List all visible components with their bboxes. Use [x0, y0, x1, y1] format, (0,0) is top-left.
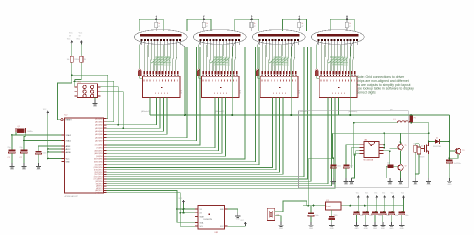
crystal Q2 box: [267, 208, 275, 220]
capacitor C21 decouple: [367, 206, 369, 212]
ground cap 3: [374, 222, 376, 226]
driver IC4 box: [319, 76, 357, 98]
svg-text:1k: 1k: [158, 23, 160, 25]
psu IC3 pins: [360, 144, 364, 146]
driver IC2 pin numbers bottom: [213, 92, 216, 94]
svg-text:GND: GND: [373, 228, 378, 230]
svg-text:U$1: U$1: [364, 140, 367, 142]
wire d5 r: [439, 141, 449, 143]
capacitor C23 decouple: [384, 206, 386, 212]
svg-text:In out: In out: [326, 205, 331, 208]
svg-text:16MHz: 16MHz: [27, 131, 33, 133]
ground lp2: [350, 178, 352, 182]
svg-text:GND: GND: [447, 184, 452, 186]
svg-text:2k2: 2k2: [387, 162, 390, 164]
node rail j3: [349, 205, 351, 207]
wire vcc avcc: [48, 148, 62, 150]
resistor R2 pullup: [80, 56, 83, 62]
svg-text:100n: 100n: [386, 215, 390, 217]
node filament junction 3: [251, 18, 253, 20]
svg-text:X2: X2: [200, 213, 202, 215]
node xtal2 j: [23, 140, 25, 142]
tube V2 segment bar: [199, 34, 241, 36]
connector SV1 pin stubs: [75, 86, 78, 88]
wire ic3 mid line: [333, 132, 429, 134]
capacitor C1: [9, 150, 16, 152]
tube V4 segment bar: [317, 34, 359, 36]
wire tube 2 anode to rail: [232, 41, 235, 47]
tube V3 pin wires: [259, 41, 261, 45]
rtc IC2 box: [198, 205, 225, 229]
svg-text:(MOSI)PB5: (MOSI)PB5: [94, 159, 103, 161]
svg-text:AGND: AGND: [66, 151, 72, 154]
node anode junction 3: [290, 114, 292, 116]
power VCC rtc pullups: [182, 200, 185, 202]
resistor array driver 2: [202, 71, 204, 75]
svg-text:(OC0)PB0: (OC0)PB0: [95, 145, 103, 147]
ground connector: [94, 98, 96, 102]
ground R12: [389, 178, 391, 182]
driver IC1 center mark: [161, 87, 162, 88]
resistor R11: [417, 147, 420, 154]
ground Q3: [428, 178, 430, 182]
driver IC3 center mark: [279, 87, 280, 88]
svg-text:1k: 1k: [206, 23, 208, 25]
svg-text:47: 47: [206, 26, 208, 28]
svg-text:GND: GND: [279, 228, 284, 230]
power VCC cap 2: [366, 195, 369, 197]
wire ic3 lp3: [354, 123, 360, 155]
power VCC mcu: [46, 111, 49, 113]
svg-text:100n: 100n: [315, 215, 319, 217]
wire c1 gnd: [11, 153, 13, 163]
wire xtal1: [24, 132, 61, 140]
driver IC2 center mark: [220, 87, 221, 88]
wire t3 down: [449, 154, 458, 158]
resistor filament R2: [202, 22, 205, 27]
node scl row2: [180, 212, 182, 214]
power VCC filament 5: [346, 16, 348, 20]
wire agnd: [48, 151, 62, 153]
svg-text:(AD1)PA1: (AD1)PA1: [95, 121, 103, 124]
driver IC4 pin numbers top: [320, 80, 323, 82]
wire t1 up: [400, 133, 402, 144]
wire ISP w3: [101, 87, 119, 125]
driver IC4 center mark: [338, 87, 339, 88]
wire q2 a: [275, 201, 307, 212]
svg-text:(AIN1)PB3: (AIN1)PB3: [95, 152, 103, 155]
capacitor C12: [343, 165, 349, 167]
rtc top right pin: [225, 208, 228, 210]
svg-text:47: 47: [349, 26, 351, 28]
resistor filament R5: [345, 22, 348, 27]
connector SV1 box: [77, 84, 97, 98]
svg-text:(AD3)PA3: (AD3)PA3: [95, 127, 103, 130]
svg-text:(SS)PB4: (SS)PB4: [96, 156, 103, 158]
wire crossover mesh tube 4: [328, 58, 336, 64]
svg-text:10k: 10k: [76, 59, 79, 61]
resistor array driver 3: [261, 71, 263, 75]
wire c11 left: [308, 157, 333, 159]
wire ic3 lp1: [346, 145, 360, 165]
svg-text:GND: GND: [330, 228, 335, 230]
wire driver1 anode feed: [149, 98, 151, 115]
wire mid line down: [332, 133, 335, 158]
wire ic3 lp4: [351, 154, 359, 178]
svg-text:T2: T2: [405, 166, 407, 168]
resistor R12: [388, 165, 394, 168]
power VCC filament 2: [203, 16, 205, 20]
svg-text:IC5: IC5: [326, 200, 329, 202]
svg-text:GND: GND: [22, 169, 27, 171]
svg-text:psu: psu: [390, 109, 393, 111]
capacitor C3 aref: [35, 151, 41, 152]
svg-text:GND: GND: [331, 184, 336, 186]
ground cap 6: [401, 222, 403, 226]
node filament junction 5: [346, 18, 348, 20]
power VCC cap 1: [357, 195, 360, 197]
svg-text:1k5: 1k5: [421, 146, 424, 148]
svg-text:(MISO)PB6: (MISO)PB6: [94, 162, 103, 164]
svg-text:GND: GND: [364, 228, 369, 230]
driver IC3 pin numbers top: [261, 80, 264, 82]
svg-text:47: 47: [302, 26, 304, 28]
svg-text:(AD0)PA0: (AD0)PA0: [95, 117, 103, 120]
svg-text:(A11)PC3: (A11)PC3: [95, 191, 102, 194]
wire crossover mesh tube 1: [151, 58, 159, 64]
wire c2 gnd: [23, 153, 25, 163]
capacitor C13 out: [446, 159, 453, 161]
node filament junction 4: [298, 18, 300, 20]
wire t1 t2: [400, 150, 402, 164]
driver IC2 box: [201, 76, 239, 98]
capacitor C10 elco: [310, 206, 312, 213]
ground cap 4: [382, 222, 384, 226]
power VCC R1: [70, 40, 73, 42]
svg-text:(T1)PB1: (T1)PB1: [96, 148, 102, 150]
driver IC3 pin numbers bottom: [272, 92, 275, 94]
wire ISP w2: [75, 81, 114, 122]
svg-text:1N4937/B6: 1N4937/B6: [433, 146, 441, 148]
wire R2 down: [75, 62, 82, 87]
wire q3 gnd: [428, 154, 430, 178]
wire rtc vcc gnd: [228, 209, 238, 213]
ground C3: [37, 163, 39, 167]
tube V1 segment bar: [140, 34, 182, 36]
power VCC rtc: [244, 222, 247, 224]
node mid line j: [428, 133, 430, 135]
wire rail right corner: [448, 115, 450, 159]
tube V3 pins: [259, 39, 261, 41]
node rail j4: [364, 205, 366, 207]
node xtal1 j: [11, 134, 13, 136]
psu IC3 box: [364, 142, 379, 158]
wire c1 up: [12, 134, 16, 136]
svg-text:47: 47: [158, 26, 160, 28]
svg-text:2u2/250v: 2u2/250v: [454, 163, 461, 165]
mosfet Q3: [428, 133, 430, 145]
wire filament link 1: [139, 19, 163, 31]
svg-text:XTAL1: XTAL1: [66, 139, 71, 142]
svg-text:AVCC: AVCC: [66, 148, 72, 151]
wire filament link 4: [282, 19, 306, 31]
svg-text:RESET: RESET: [66, 119, 73, 121]
svg-text:[ANode2]: [ANode2]: [216, 110, 225, 113]
wire ISP w4: [101, 92, 124, 129]
wire rtc vcc2: [228, 225, 246, 227]
svg-text:22p: 22p: [20, 147, 23, 149]
capacitor C24 decouple: [392, 206, 394, 212]
capacitor C20 decouple: [357, 206, 359, 212]
tube V2 pin wires: [200, 41, 202, 45]
svg-text:GND: GND: [400, 228, 405, 230]
capacitor C2: [21, 150, 28, 152]
ground C13: [448, 178, 450, 182]
wire crossover mesh tube 2: [210, 58, 218, 64]
wire ic3 riser: [383, 133, 385, 147]
driver IC2 pin numbers top: [202, 80, 205, 82]
svg-text:GND: GND: [66, 161, 71, 163]
tube V3 envelope: [252, 30, 305, 45]
node anode junction 1: [184, 114, 186, 116]
wire c13 gnd: [448, 163, 450, 178]
svg-text:1k: 1k: [254, 23, 256, 25]
ground R10: [414, 178, 416, 182]
svg-text:GND: GND: [427, 184, 432, 186]
node filament junction 1: [155, 18, 157, 20]
ground C10: [310, 222, 312, 226]
svg-text:(AIN0)PB2: (AIN0)PB2: [95, 149, 103, 152]
svg-text:R4: R4: [84, 59, 86, 61]
driver IC3 box: [260, 76, 298, 98]
svg-text:22p: 22p: [8, 147, 11, 149]
wire 7805 up: [307, 158, 309, 205]
power VCC filament 3: [251, 16, 253, 20]
wire cap 6 stub: [403, 199, 405, 205]
wire SCL: [104, 193, 199, 227]
svg-text:(AD5)PA5: (AD5)PA5: [95, 133, 103, 136]
ground cap 5: [390, 222, 392, 226]
svg-text:100n: 100n: [360, 215, 364, 217]
svg-text:GND: GND: [309, 228, 314, 230]
power VCC cap 3: [375, 195, 378, 197]
node filament junction 2: [203, 18, 205, 20]
rtc IC2 pins: [195, 208, 198, 210]
wire filament link 5: [330, 19, 354, 31]
wire L1 left: [354, 122, 398, 124]
wire bundle tube 4 to driver: [321, 45, 323, 71]
node scl pullup: [183, 212, 185, 214]
mcu right pins: [104, 118, 107, 120]
wire tube 4 anode to rail: [350, 41, 353, 47]
wire R1 to reset: [71, 62, 73, 83]
node rail j1: [307, 205, 309, 207]
power VCC R2: [80, 40, 83, 42]
svg-text:4u7: 4u7: [350, 166, 353, 168]
wire cap 4 stub: [384, 199, 386, 205]
tube V2 envelope: [193, 30, 246, 45]
connector SV1 pins: [83, 85, 86, 88]
node R2 junction: [74, 80, 76, 82]
power VCC cap 4: [383, 195, 386, 197]
power VCC filament 1: [155, 16, 157, 20]
transistor T2: [398, 165, 403, 170]
driver IC4 pin numbers bottom: [331, 92, 334, 94]
ground rtc: [237, 213, 239, 217]
wire bundle tube 1 to driver: [144, 45, 146, 71]
resistor R10: [414, 145, 417, 152]
svg-text:(SCK)PB7: (SCK)PB7: [95, 164, 103, 166]
svg-text:C2: C2: [20, 157, 22, 159]
wire ISP w1: [72, 75, 108, 118]
svg-text:C1: C1: [8, 157, 10, 159]
wire bus MCU to drivers: [104, 98, 157, 125]
mcu IC1 box: [65, 118, 104, 193]
node c11 junction: [332, 157, 334, 159]
ground C11: [332, 178, 334, 182]
node anode junction 2: [231, 114, 233, 116]
svg-text:100n: 100n: [369, 215, 373, 217]
tube V2 pins: [200, 39, 202, 41]
wire aref: [38, 146, 61, 151]
svg-text:BS170: BS170: [420, 157, 425, 159]
svg-text:GND: GND: [388, 184, 393, 186]
resistor array driver 4: [320, 71, 322, 75]
rtc bottom right pin: [225, 225, 228, 227]
svg-text:GND: GND: [389, 228, 394, 230]
svg-text:GND: GND: [355, 228, 360, 230]
wire filament link 3: [235, 19, 259, 31]
transistor T1: [398, 144, 403, 149]
tube V3 segment bar: [258, 34, 300, 36]
wire L1 right: [413, 123, 429, 139]
tube V1 envelope: [134, 30, 187, 45]
svg-text:SCL: SCL: [200, 226, 204, 228]
node cap out j: [449, 157, 451, 159]
svg-text:100n: 100n: [405, 215, 409, 217]
ground C1: [11, 163, 13, 167]
node reset junction: [71, 74, 73, 76]
svg-text:T1: T1: [405, 145, 407, 147]
svg-text:(AD7)PA7: (AD7)PA7: [95, 139, 103, 142]
wire SDA: [104, 191, 199, 223]
wire tube 1 anode to rail: [177, 41, 185, 47]
diode D5: [435, 139, 440, 144]
tube V4 pin wires: [318, 41, 320, 45]
svg-text:F1: F1: [414, 118, 416, 120]
wire d5 l: [429, 141, 435, 143]
ground cap 1: [356, 222, 358, 226]
svg-text:(AD4)PA4: (AD4)PA4: [95, 130, 103, 133]
svg-text:(AD6)PA6: (AD6)PA6: [95, 136, 103, 139]
capacitor C22 decouple: [376, 206, 378, 212]
wire c3 gnd: [37, 154, 39, 163]
ground q2: [280, 222, 282, 226]
wire cap 1 stub: [357, 199, 359, 205]
svg-text:[ANode1]: [ANode1]: [141, 110, 150, 113]
driver IC1 pin numbers bottom: [154, 92, 157, 94]
svg-text:100n: 100n: [395, 215, 399, 217]
ground C2: [23, 163, 25, 167]
capacitor C25 decouple: [403, 206, 405, 212]
wire q2 b: [275, 216, 281, 222]
wire tube 3 anode to rail: [291, 41, 294, 47]
node ISP w3 join: [117, 124, 119, 126]
power VCC filament 4: [298, 16, 300, 20]
svg-text:DS1307ZM: DS1307ZM: [203, 219, 212, 221]
svg-text:T3: T3: [462, 150, 464, 152]
svg-text:10k: 10k: [67, 59, 70, 61]
svg-text:GND: GND: [399, 184, 404, 186]
ground C12: [345, 178, 347, 182]
svg-text:correct digits: correct digits: [357, 91, 377, 95]
svg-text:GND: GND: [344, 184, 349, 186]
svg-text:GND: GND: [381, 228, 386, 230]
node ISP w4 join: [122, 127, 124, 129]
fuse F1: [410, 114, 412, 117]
crystal Q2 symbol: [268, 211, 270, 218]
resistor filament R4: [298, 22, 301, 27]
svg-text:100n: 100n: [43, 153, 47, 155]
ground cap 2: [365, 222, 367, 226]
resistor filament R1: [155, 22, 158, 27]
svg-text:GND: GND: [349, 184, 354, 186]
wire bundle tube 2 to driver: [203, 45, 205, 71]
svg-text:VBAT: VBAT: [200, 215, 204, 218]
resistor grid R tube 4: [317, 41, 319, 45]
wire r12: [393, 165, 398, 167]
wire r11 dn: [418, 154, 420, 174]
tube V4 envelope: [311, 30, 364, 45]
wire cap 3 stub: [376, 199, 378, 205]
node anode junction 4: [349, 114, 351, 116]
resistor grid R tube 1: [140, 41, 142, 45]
driver IC1 pin numbers top: [143, 80, 146, 82]
transistor T3: [455, 148, 461, 154]
resistor filament R3: [250, 22, 253, 27]
capacitor C14: [331, 210, 333, 216]
resistor grid R tube 3: [258, 41, 260, 45]
tube V4 pins: [318, 39, 320, 41]
svg-text:ATMEGA162P: ATMEGA162P: [65, 195, 79, 198]
svg-text:L1: L1: [394, 119, 396, 121]
svg-text:1k: 1k: [302, 23, 304, 25]
wire sda row1: [177, 208, 198, 210]
node rail j2: [313, 205, 315, 207]
resistor R1 pullup: [70, 56, 73, 62]
svg-text:GND: GND: [413, 184, 418, 186]
svg-text:1k: 1k: [349, 23, 351, 25]
tube V1 pin wires: [141, 41, 143, 45]
svg-text:X1: X1: [200, 209, 202, 211]
wire cap 5 stub: [392, 199, 394, 205]
svg-text:Q1: Q1: [18, 126, 20, 128]
wire filament link 2: [187, 19, 211, 31]
regulator IC5 7805 box: [325, 202, 341, 210]
svg-text:XTAL2: XTAL2: [66, 134, 71, 137]
svg-text:100n: 100n: [378, 215, 382, 217]
power VCC cap 5: [392, 195, 395, 197]
wire VCC to R2: [80, 44, 82, 56]
wire cap 2 stub: [367, 199, 369, 205]
node ic3 j2: [383, 147, 385, 149]
frame PSU box: [299, 111, 409, 188]
node ic3 j1: [383, 144, 385, 146]
svg-text:GND: GND: [93, 106, 98, 108]
resistor array driver 1: [143, 71, 145, 75]
svg-text:100n: 100n: [337, 166, 341, 168]
svg-text:D1: D1: [436, 137, 438, 139]
